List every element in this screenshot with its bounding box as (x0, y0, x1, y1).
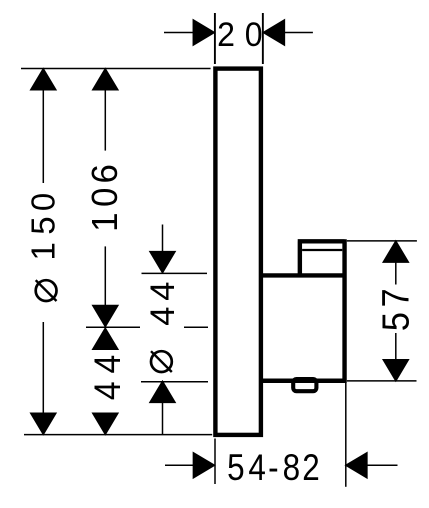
diameter symbol of Ø150 (36, 280, 57, 301)
extension line, plate top edge (21, 68, 211, 70)
svg-text:7: 7 (374, 288, 417, 307)
dimension 54-82 right tail line (366, 464, 397, 466)
dimension 44 top arrow (93, 328, 118, 349)
extension line, handle bottom (for 57) (347, 380, 417, 382)
dimension 20 left arrow (193, 20, 214, 45)
svg-text:2: 2 (302, 447, 319, 488)
svg-text:4: 4 (144, 307, 182, 326)
svg-text:4: 4 (144, 282, 182, 301)
extension line, handle right (for 54-82) (345, 383, 347, 487)
svg-text:0: 0 (84, 188, 125, 207)
svg-text:2: 2 (217, 16, 235, 54)
dimension 20 left tail line (164, 32, 195, 34)
extension line, plate front face (for 20) (214, 13, 216, 64)
dimension 106 bottom arrow (93, 306, 118, 327)
dimension 57 lower line (395, 333, 397, 361)
dimension 57 top arrow (383, 241, 408, 262)
dimension Ø44 top arrow (150, 252, 175, 273)
dimension 54-82 right arrow (346, 453, 367, 478)
dimension 54-82 left tail line (165, 464, 195, 466)
handle cap parting line (302, 249, 342, 251)
extension line, handle top (for 57) (347, 240, 417, 242)
dimension 54-82 left arrow (193, 453, 214, 478)
svg-text:4: 4 (86, 381, 128, 400)
dimension 106 lower line (104, 246, 106, 306)
diameter symbol of Ø44 (151, 351, 172, 372)
dimension 20 right arrow (263, 20, 284, 45)
svg-text:4: 4 (248, 447, 265, 488)
dimension Ø150 bottom arrow (31, 413, 56, 434)
svg-text:1: 1 (84, 212, 125, 231)
dimension Ø44 upper leader (162, 225, 164, 254)
dimension Ø44 bottom arrow (150, 381, 175, 402)
svg-text:0: 0 (25, 193, 62, 211)
extension line, handle top edge (142, 272, 208, 274)
wall plate (side view, 20 mm deep, round Ø150 plate) (215, 69, 261, 435)
svg-text:0: 0 (245, 16, 263, 54)
svg-text:5: 5 (227, 447, 244, 488)
dimension Ø150 top arrow (31, 69, 56, 90)
svg-text:-: - (268, 447, 278, 488)
dimension 106 top arrow (93, 69, 118, 90)
handle grip tab at bottom (293, 379, 316, 391)
dimension 44 bottom arrow (93, 413, 118, 434)
dimension 20 right tail line (284, 32, 313, 34)
handle centre extension line right part (184, 326, 208, 328)
handle centre extension line left part (86, 326, 140, 328)
svg-text:6: 6 (84, 164, 125, 183)
dimension Ø150 upper line (42, 89, 44, 183)
handle body outline (Ø44 thermostat handle, side profile) (260, 239, 347, 381)
extension line, handle bottom edge (141, 381, 208, 383)
svg-text:4: 4 (86, 355, 128, 374)
dimension Ø150 lower line (42, 322, 44, 414)
dimension 106 upper line (104, 89, 106, 150)
extension line, plate back face (for 20) (262, 13, 264, 64)
dimension 57 upper line (395, 262, 397, 285)
extension line, plate bottom edge (24, 434, 212, 436)
svg-text:5: 5 (25, 216, 62, 234)
dimension Ø44 lower leader (162, 402, 164, 435)
svg-text:5: 5 (374, 312, 417, 331)
dimension 57 bottom arrow (383, 360, 408, 381)
svg-text:1: 1 (25, 242, 62, 260)
extension line, plate left (for 54-82) (214, 439, 216, 485)
svg-text:8: 8 (283, 447, 300, 488)
